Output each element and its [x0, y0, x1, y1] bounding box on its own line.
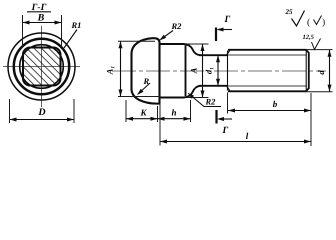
thread outer bottom edge [228, 90, 307, 92]
svg-text:R2: R2 [171, 21, 183, 31]
svg-text:R1: R1 [71, 20, 82, 30]
thread minor dia bottom thin line [228, 85, 307, 87]
dimension K and h [125, 100, 127, 122]
center lines of section view [3, 66, 80, 68]
svg-text:A₁: A₁ [105, 66, 115, 76]
circle head thick outline [14, 39, 69, 94]
section mark Г top [215, 28, 217, 42]
bolt head dome outline [132, 38, 160, 103]
smooth shank top edge [199, 54, 228, 56]
svg-text:K: K [139, 108, 147, 118]
bolt end face with chamfer [306, 50, 309, 92]
dimension A [187, 43, 209, 45]
thread start step bottom [227, 86, 231, 91]
subhead right face [185, 46, 187, 97]
smooth shank bottom edge [199, 85, 228, 87]
svg-text:A: A [189, 67, 199, 74]
svg-text:h: h [171, 108, 176, 118]
hatched square subhead section [23, 48, 61, 86]
dimension d [306, 49, 333, 51]
dimension b [227, 93, 229, 114]
dimension A1 [118, 40, 155, 42]
svg-text:25: 25 [285, 8, 294, 16]
svg-text:d₁: d₁ [204, 67, 214, 74]
thread minor dia top thin line [228, 54, 307, 56]
thread outer top edge [228, 49, 307, 51]
svg-text:Г: Г [222, 126, 229, 136]
svg-text:): ) [322, 18, 325, 28]
dimension d1 [217, 55, 219, 86]
svg-text:D: D [37, 107, 45, 118]
svg-text:b: b [273, 99, 278, 109]
thread boundary line [227, 51, 229, 91]
svg-text:R2: R2 [205, 97, 217, 107]
subhead block top edge [160, 44, 201, 55]
svg-text:12,5: 12,5 [303, 34, 315, 41]
dimension B [22, 15, 24, 47]
svg-text:(: ( [307, 18, 310, 28]
subhead block bottom edge [160, 86, 201, 98]
center line of bolt [112, 70, 326, 72]
dimension l [159, 103, 161, 146]
section mark Г bottom [215, 110, 217, 124]
svg-text:Г: Г [224, 15, 231, 25]
circle bearing face [20, 45, 64, 89]
svg-text:B: B [37, 13, 45, 24]
circle D head outer [8, 33, 75, 100]
thread start step top [227, 50, 231, 55]
dimension D [9, 99, 11, 123]
